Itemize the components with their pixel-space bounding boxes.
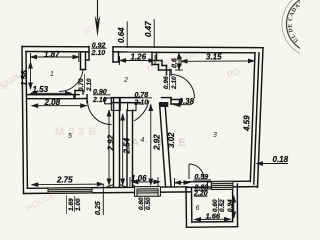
svg-text:2.10: 2.10: [134, 100, 149, 107]
svg-text:0.70: 0.70: [78, 78, 85, 91]
svg-text:3.15: 3.15: [206, 53, 222, 62]
svg-text:2.10: 2.10: [171, 76, 178, 90]
svg-text:1.06: 1.06: [131, 174, 147, 183]
svg-text:2.54: 2.54: [123, 137, 132, 154]
svg-text:0.92: 0.92: [92, 42, 106, 49]
svg-text:1.53: 1.53: [33, 85, 49, 94]
svg-text:0.18: 0.18: [273, 155, 289, 164]
svg-text:0.78: 0.78: [135, 92, 149, 99]
svg-text:0.50: 0.50: [145, 197, 152, 210]
svg-text:2.92: 2.92: [153, 134, 162, 151]
svg-text:0.60: 0.60: [212, 199, 219, 212]
svg-text:2.08: 2.08: [44, 98, 61, 107]
svg-text:0.94: 0.94: [227, 199, 234, 212]
svg-text:4: 4: [141, 137, 145, 144]
svg-text:3.02: 3.02: [167, 132, 176, 148]
svg-text:1.69: 1.69: [68, 198, 75, 211]
svg-text:0.60: 0.60: [138, 197, 145, 210]
svg-text:0.38: 0.38: [179, 97, 195, 106]
svg-text:1.26: 1.26: [131, 53, 147, 62]
svg-text:2.10: 2.10: [92, 97, 107, 104]
svg-text:3: 3: [213, 132, 217, 139]
svg-text:2.92: 2.92: [107, 134, 116, 151]
svg-text:1.00: 1.00: [75, 198, 82, 211]
svg-text:0.59: 0.59: [195, 174, 209, 181]
svg-text:0.64: 0.64: [117, 27, 126, 43]
svg-text:1.56: 1.56: [20, 70, 29, 86]
svg-text:2.10: 2.10: [91, 50, 106, 57]
svg-text:0.47: 0.47: [144, 21, 153, 37]
svg-text:2.10: 2.10: [86, 78, 93, 92]
svg-text:5: 5: [68, 133, 72, 140]
svg-text:M03B: M03B: [55, 126, 100, 138]
svg-text:0.6: 0.6: [172, 58, 179, 68]
svg-text:1: 1: [50, 71, 54, 78]
svg-text:2.20: 2.20: [193, 191, 208, 198]
svg-text:6: 6: [196, 205, 200, 212]
svg-text:0.96: 0.96: [163, 76, 170, 89]
svg-text:2.75: 2.75: [56, 176, 73, 185]
svg-text:1.87: 1.87: [44, 50, 60, 59]
svg-text:2: 2: [123, 77, 128, 84]
svg-text:0.25: 0.25: [95, 201, 102, 215]
svg-text:0.90: 0.90: [93, 89, 107, 96]
svg-text:4.59: 4.59: [243, 115, 252, 132]
svg-text:0.52: 0.52: [219, 199, 226, 212]
